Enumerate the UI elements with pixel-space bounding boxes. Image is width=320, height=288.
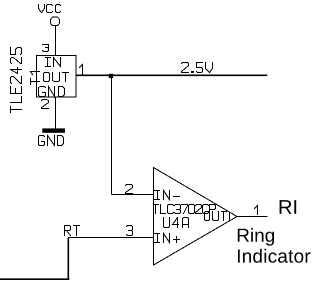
pin number 3 (U4A IN+) (127, 226, 133, 236)
comparator U4A body (154, 168, 238, 266)
reference designator T1 (31, 72, 40, 85)
power symbol VCC (39, 5, 61, 26)
pin number 3 (T1 IN pin) (43, 45, 49, 52)
wire T1 OUT to 2.5V net (76, 74, 267, 76)
pin name IN- (155, 191, 180, 200)
pin number 2 (U4A IN-) (126, 185, 133, 194)
wire into U4A IN- (112, 194, 154, 196)
pin name IN+ (155, 234, 180, 243)
wire junction down toward IN- (111, 77, 113, 195)
reference designator U4A (164, 218, 189, 228)
pin name OUT (44, 73, 69, 82)
wire T1 GND to ground (55, 97, 57, 129)
pin number 2 (T1 GND pin) (42, 100, 49, 109)
net label RT (65, 226, 80, 236)
part number TLC3702CP (154, 205, 216, 214)
text Ring Indicator line 1 (238, 228, 274, 246)
wire RT bottom horizontal segment (0, 278, 69, 280)
wire RT to U4A IN+ (68, 237, 153, 239)
junction node on 2.5V net (109, 74, 113, 78)
value label TLE2425 (11, 48, 22, 113)
pin name IN (46, 58, 61, 67)
pin name OUT (205, 212, 227, 221)
pin name GND (39, 87, 65, 97)
text Ring Indicator line 2 (238, 249, 310, 263)
ground symbol GND (39, 128, 66, 145)
wire RT vertical segment (67, 238, 69, 280)
wire U4A OUT to RI (237, 216, 267, 218)
voltage regulator T1 body (37, 56, 77, 98)
net label 2.5V (182, 63, 213, 73)
comparator apex chord (229, 212, 231, 221)
net label RI (280, 200, 297, 214)
wire VCC to T1 pin 3 (55, 26, 57, 56)
pin number 1 (U4A OUT) (255, 206, 258, 215)
pin number 1 (T1 OUT pin) (80, 65, 83, 75)
